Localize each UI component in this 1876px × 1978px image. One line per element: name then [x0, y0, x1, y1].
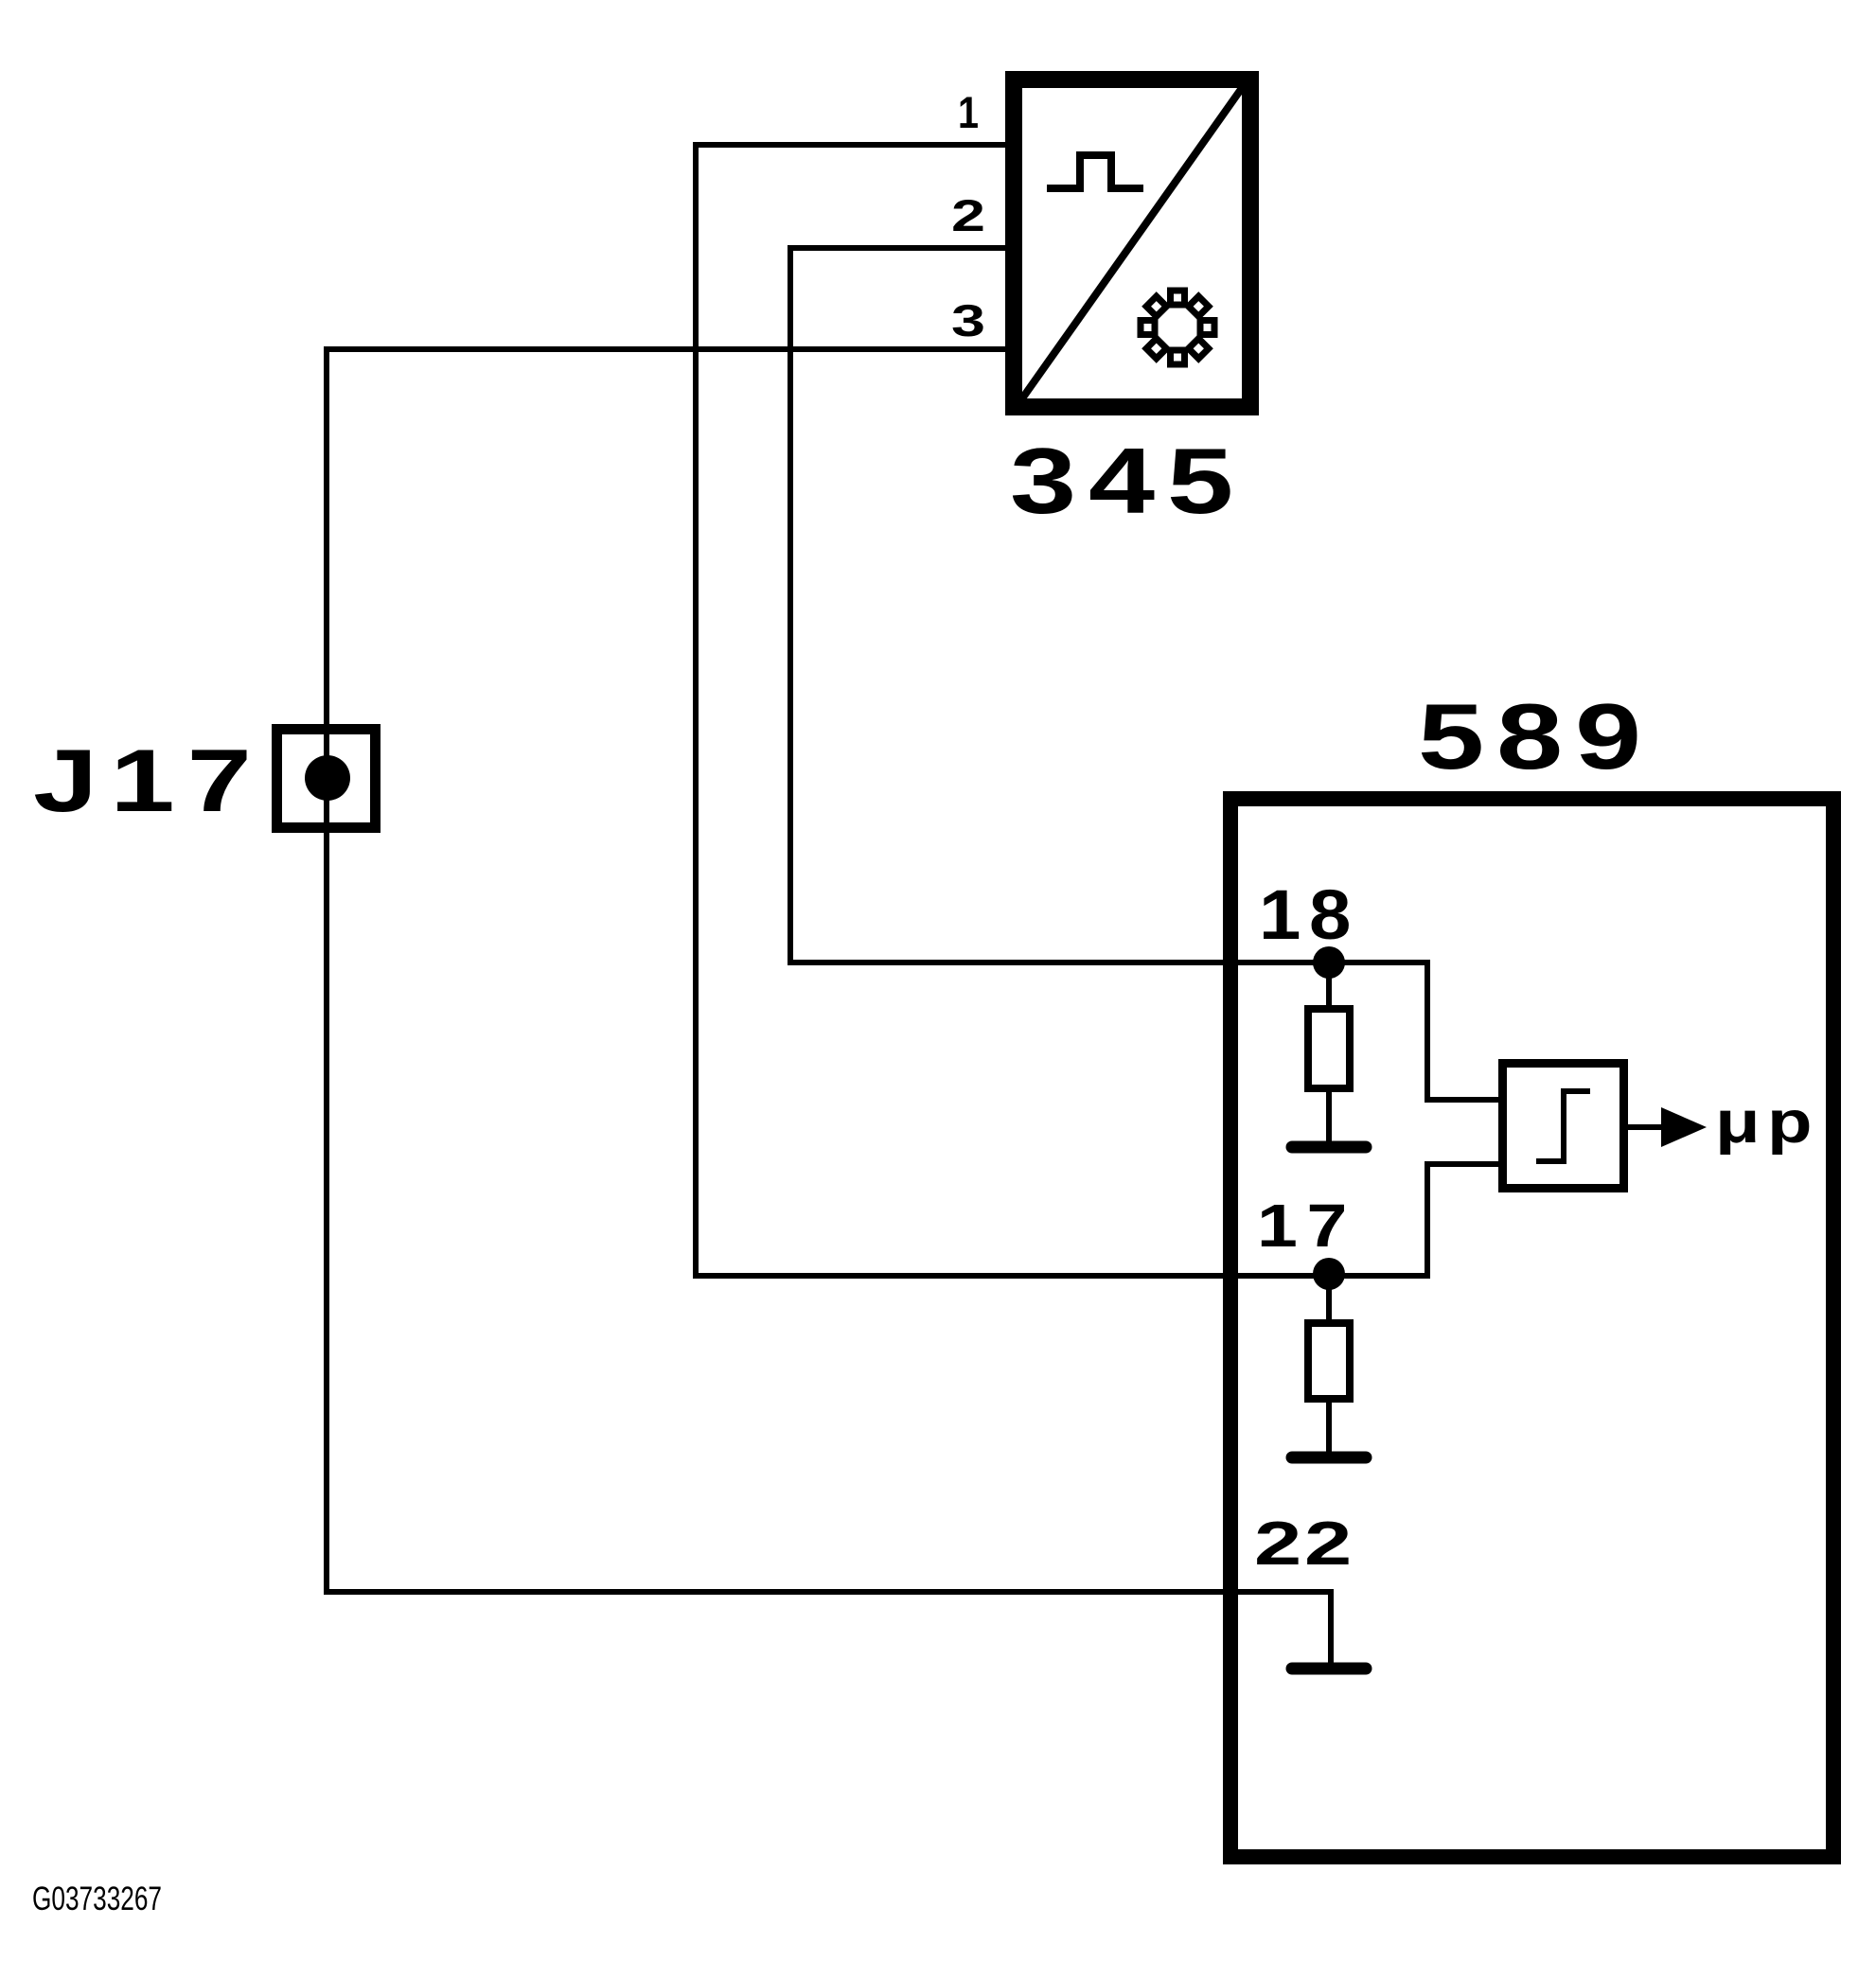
svg-text:589: 589 [1418, 684, 1654, 788]
svg-text:17: 17 [1257, 1192, 1356, 1260]
svg-text:G03733267: G03733267 [32, 1881, 162, 1917]
svg-text:2: 2 [951, 190, 985, 240]
svg-text:1: 1 [958, 87, 979, 137]
svg-text:μp: μp [1715, 1089, 1819, 1156]
svg-text:3: 3 [951, 295, 985, 345]
svg-text:J17: J17 [33, 731, 264, 830]
svg-text:22: 22 [1254, 1509, 1354, 1578]
svg-text:18: 18 [1259, 875, 1359, 954]
svg-text:345: 345 [1010, 429, 1246, 533]
